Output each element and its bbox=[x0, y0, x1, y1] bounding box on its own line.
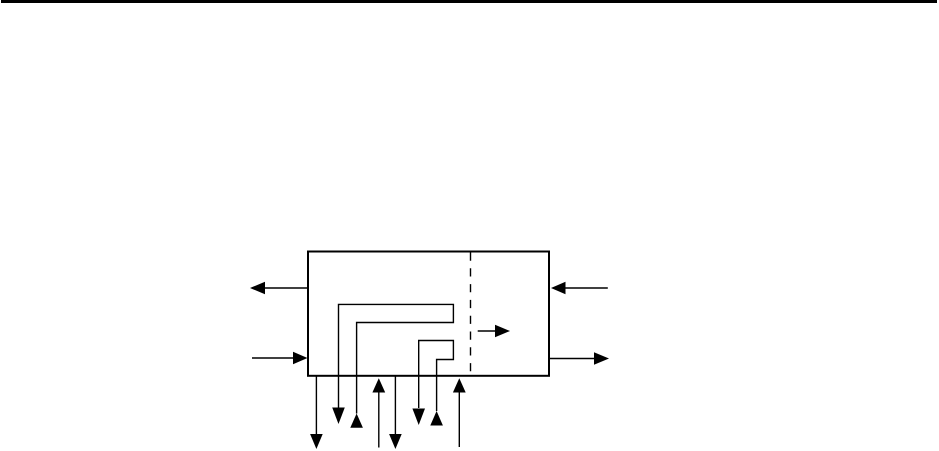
arrow up bottom 2 bbox=[453, 378, 466, 447]
dashed partition bbox=[470, 253, 472, 376]
arrow up bottom 1 bbox=[372, 378, 385, 447]
box (unit outline) bbox=[308, 252, 549, 376]
arrow internal (at partition) bbox=[478, 325, 510, 337]
arrow out left (top) bbox=[250, 282, 308, 295]
arrow in left (bottom) bbox=[252, 352, 308, 365]
baffle channel inner bbox=[419, 341, 454, 412]
arrow down bottom 2 bbox=[389, 376, 402, 449]
arrow out right (bottom) bbox=[549, 352, 609, 365]
header rule bbox=[1, 0, 937, 3]
arrow down bottom 1 bbox=[310, 376, 323, 449]
arrow up at inner baffle inner leg bbox=[430, 411, 443, 426]
baffle channel outer bbox=[339, 304, 454, 413]
arrow up at outer baffle inner leg bbox=[350, 414, 363, 428]
arrow down at outer baffle left leg bbox=[332, 408, 345, 425]
arrow down at inner baffle left leg bbox=[412, 409, 425, 426]
arrow in right (top) bbox=[551, 282, 608, 295]
